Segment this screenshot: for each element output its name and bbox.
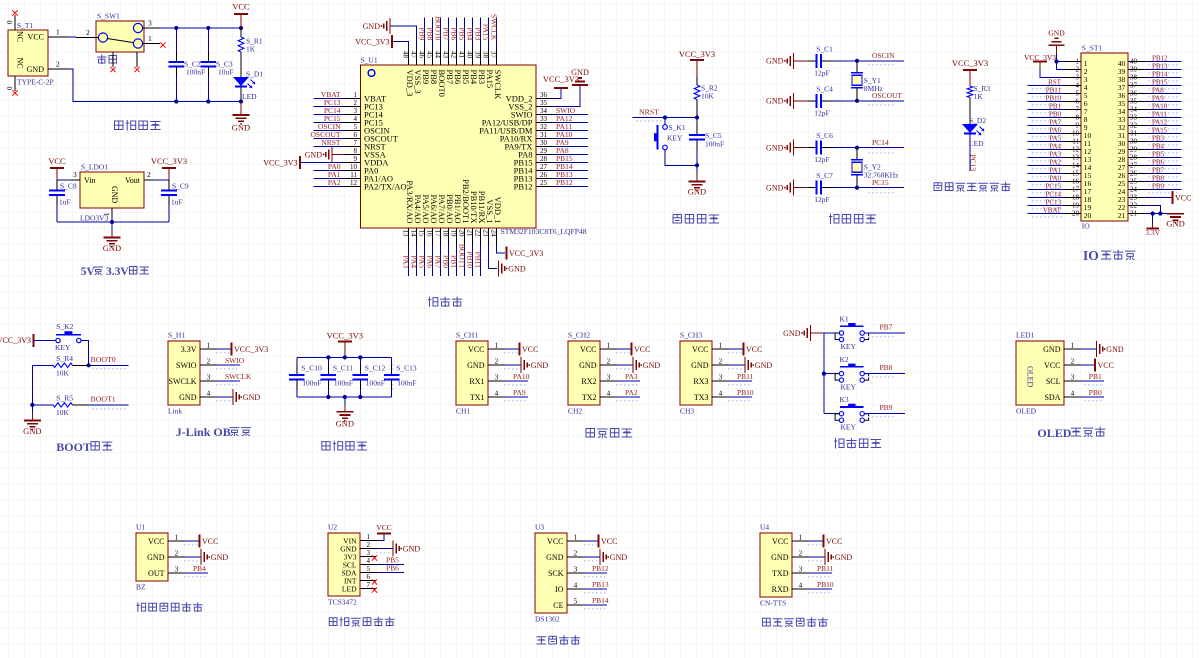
svg-text:VCC: VCC (202, 537, 218, 546)
svg-text:31: 31 (540, 131, 548, 139)
svg-text:17: 17 (433, 230, 441, 238)
svg-text:GND: GND (771, 553, 789, 562)
ground VSS_3 pin47 (390, 26, 416, 49)
svg-text:38: 38 (481, 51, 489, 59)
svg-text:PB11: PB11 (737, 372, 754, 381)
pin ST1.16 (1065, 181, 1081, 183)
svg-text:GND: GND (766, 144, 784, 153)
wire/net PC15 (313, 122, 344, 124)
pin ST1.23 (1128, 197, 1144, 199)
svg-text:S_C1: S_C1 (816, 44, 833, 53)
svg-text:SDA: SDA (1044, 393, 1060, 402)
snap dots (1146, 175, 1179, 180)
snap dots (1030, 183, 1062, 188)
svg-text:2: 2 (56, 60, 60, 69)
snap dots (1146, 143, 1179, 148)
junction (30, 403, 34, 407)
svg-text:SCK: SCK (548, 569, 564, 578)
wire/net PB10 (471, 245, 473, 277)
svg-text:21: 21 (1130, 210, 1138, 218)
pin U1.34 SWIO (536, 114, 552, 116)
wire/net PB12 (1144, 61, 1181, 63)
svg-text:3.3V: 3.3V (106, 266, 129, 278)
svg-text:3: 3 (1076, 74, 1080, 82)
svg-text:VCC_3V3: VCC_3V3 (679, 49, 715, 59)
wire/net PB7 (868, 334, 894, 339)
wire/net BOOT1 (463, 245, 465, 277)
svg-text:6: 6 (1076, 98, 1080, 106)
svg-text:LED: LED (969, 139, 984, 148)
ground GND (216, 398, 231, 403)
ground VSS_1 pin23 (488, 245, 497, 269)
svg-text:35: 35 (540, 99, 548, 107)
module S_CH2 (568, 341, 600, 405)
wire/net PA3 (616, 382, 638, 387)
power VCC (184, 542, 198, 547)
pin ST1.9 (1065, 125, 1081, 127)
svg-text:15: 15 (417, 230, 425, 238)
svg-text:PB14: PB14 (592, 596, 609, 605)
svg-text:PB4: PB4 (465, 27, 474, 40)
svg-text:PA9: PA9 (513, 388, 526, 397)
svg-text:PA2: PA2 (625, 388, 638, 397)
resistor R1 (240, 28, 242, 37)
pin U1.45 PB8 (431, 49, 433, 65)
svg-text:21: 21 (1118, 211, 1126, 220)
svg-text:VCC: VCC (1098, 361, 1114, 370)
wire/net PA12 (1144, 125, 1181, 127)
svg-text:4: 4 (1076, 82, 1080, 90)
pin U1.1 VBAT (345, 98, 361, 100)
snap dots (1030, 119, 1062, 124)
svg-text:2: 2 (719, 357, 723, 366)
svg-text:10K: 10K (56, 408, 70, 417)
wire/net PB7 (1144, 173, 1181, 175)
svg-text:48: 48 (401, 51, 409, 59)
capacitor C7 (808, 187, 817, 189)
ground GND (808, 558, 823, 563)
svg-text:NC: NC (15, 58, 24, 69)
snap dots (1146, 79, 1179, 84)
snap dots (1030, 103, 1062, 108)
button K3 (824, 413, 839, 415)
wire/net PB12 (583, 574, 605, 579)
svg-text:PB0: PB0 (441, 255, 450, 268)
svg-text:7: 7 (1076, 106, 1080, 114)
svg-text:PB12: PB12 (514, 181, 533, 191)
svg-text:PB1: PB1 (449, 255, 458, 268)
pin LDO1.3 (70, 179, 80, 181)
svg-text:CH1: CH1 (456, 407, 470, 416)
svg-text:S_C6: S_C6 (816, 131, 833, 140)
svg-text:PA12: PA12 (1152, 118, 1168, 126)
svg-text:42: 42 (449, 51, 457, 59)
junction (206, 26, 210, 30)
svg-text:GND: GND (403, 544, 421, 553)
svg-text:PA11: PA11 (1152, 110, 1168, 118)
svg-text:1: 1 (719, 341, 723, 350)
pin U1.35 VSS_2 (536, 106, 552, 108)
svg-text:LED: LED (242, 92, 257, 101)
svg-text:PA5: PA5 (1049, 134, 1061, 142)
svg-text:SWCLK: SWCLK (225, 372, 252, 381)
svg-text:PB13: PB13 (592, 580, 609, 589)
svg-text:GND: GND (643, 361, 661, 370)
svg-text:RX1: RX1 (469, 377, 484, 386)
module S_H1 (168, 341, 200, 405)
power VCC (1080, 364, 1095, 366)
pin U1.25 PB12 (536, 186, 552, 188)
ground GND (31, 405, 33, 413)
pin ST1.3 (1065, 77, 1081, 79)
svg-text:VCC: VCC (376, 523, 391, 532)
power VCC_3V3 pin24 (496, 245, 505, 254)
svg-text:S_C9: S_C9 (172, 182, 189, 191)
svg-text:PB14: PB14 (1152, 70, 1168, 78)
pin U1.33 PA12/USB/DP (536, 122, 552, 124)
junction (855, 99, 859, 103)
pin U1.19 PB1/AO (455, 228, 457, 245)
wire PC13 (969, 134, 971, 171)
svg-text:1: 1 (495, 341, 499, 350)
svg-text:37: 37 (489, 51, 497, 59)
svg-text:20: 20 (1084, 211, 1092, 220)
module S_CH1 (456, 341, 488, 405)
pin U1.46 PB9 (423, 49, 425, 65)
wire bus vertical (31, 365, 33, 405)
pin ST1.25 (1128, 181, 1144, 183)
connector T1 TYPE-C-2P (8, 30, 48, 76)
svg-text:S_CH1: S_CH1 (456, 331, 478, 340)
svg-text:SWCLK: SWCLK (169, 377, 197, 386)
svg-text:PB0: PB0 (1049, 110, 1062, 118)
ground GND for C1 (792, 53, 794, 69)
svg-text:1: 1 (799, 533, 803, 542)
svg-text:41: 41 (457, 51, 465, 59)
svg-text:PB15: PB15 (1152, 78, 1168, 86)
svg-text:32: 32 (1130, 122, 1138, 130)
wire/net OSCIN (313, 130, 344, 132)
svg-text:IO: IO (555, 585, 564, 594)
svg-text:36: 36 (540, 91, 548, 99)
power VCC (728, 350, 742, 355)
pin U1.10 PA0 (345, 170, 361, 172)
svg-text:2: 2 (574, 549, 578, 558)
wire/net SWIO (552, 114, 588, 116)
svg-text:19: 19 (449, 230, 457, 238)
svg-text:VCC_3V3: VCC_3V3 (151, 156, 187, 166)
title hongwai bizhang mokuai (136, 602, 145, 612)
power VCC_3V3 VDDA pin9 (300, 162, 345, 164)
svg-text:3: 3 (1071, 373, 1075, 382)
wire/net PB8 (431, 18, 433, 50)
wire PC15 (868, 189, 896, 194)
pin ST1.2 (1065, 69, 1081, 71)
svg-text:GND: GND (546, 553, 564, 562)
svg-text:4: 4 (495, 389, 499, 398)
svg-text:PB4: PB4 (193, 564, 206, 573)
power VCC (504, 350, 518, 355)
svg-text:SWIO: SWIO (225, 356, 245, 365)
svg-text:5V: 5V (81, 266, 96, 278)
pin SW1.2 (76, 37, 99, 39)
svg-text:OLED: OLED (1026, 366, 1035, 388)
button K2 (824, 373, 839, 375)
ground ST1.1-2 (1056, 54, 1058, 62)
svg-text:47: 47 (409, 51, 417, 59)
svg-text:GND: GND (766, 57, 784, 66)
power port VCC (240, 15, 242, 29)
svg-text:S_R4: S_R4 (56, 354, 73, 363)
capacitor C10 (294, 363, 300, 371)
pin U1.24 VDD_1 (495, 228, 497, 245)
pin U1.27 PB14 (536, 170, 552, 172)
svg-text:VCC: VCC (522, 345, 538, 354)
snap dots (1030, 191, 1062, 196)
svg-text:PB1: PB1 (1049, 102, 1062, 110)
wire/net BOOT1 (92, 406, 126, 411)
svg-text:VCC: VCC (692, 345, 708, 354)
power VCC (up) (376, 533, 384, 540)
svg-text:PB3: PB3 (473, 27, 482, 40)
power VCC_3V3 pin36 (552, 88, 561, 99)
capacitor C4 (808, 100, 817, 102)
wire/net PB15 (552, 162, 588, 164)
svg-text:16: 16 (425, 230, 433, 238)
svg-text:18: 18 (1072, 194, 1080, 202)
wire/net PB12 (552, 186, 588, 188)
svg-text:8: 8 (354, 147, 358, 155)
svg-text:2: 2 (607, 357, 611, 366)
svg-text:GND: GND (835, 553, 853, 562)
svg-text:CH3: CH3 (680, 407, 694, 416)
svg-text:PB5: PB5 (457, 27, 466, 40)
wire/net PA8 (552, 154, 588, 156)
wire/net PA0 (1028, 181, 1065, 183)
snap dots (1030, 111, 1062, 116)
svg-text:32: 32 (540, 123, 548, 131)
svg-text:3: 3 (73, 170, 77, 179)
svg-text:PB8: PB8 (425, 27, 434, 40)
svg-text:PB6: PB6 (449, 27, 458, 40)
svg-text:BOOT: BOOT (56, 440, 91, 454)
svg-text:28: 28 (1130, 154, 1138, 162)
svg-text:10K: 10K (56, 369, 70, 378)
pin U1.14 PA4/AO (415, 228, 417, 245)
title shizhong mokuai (537, 637, 547, 644)
wire/net PB6 (455, 18, 457, 50)
svg-text:2: 2 (86, 28, 90, 37)
svg-text:NC: NC (15, 31, 24, 42)
pin SW1 bottom no-connects (112, 52, 114, 67)
pin U1.28 PB15 (536, 162, 552, 164)
svg-text:GND: GND (27, 65, 45, 74)
svg-text:13: 13 (1072, 154, 1080, 162)
svg-text:12pF: 12pF (814, 195, 829, 204)
wire/net PB6 (376, 572, 404, 574)
svg-text:Vout: Vout (125, 176, 141, 185)
svg-text:VCC: VCC (28, 33, 44, 42)
wire/net BOOT0 (439, 18, 441, 50)
svg-text:DS1302: DS1302 (535, 615, 560, 624)
snap dots (1030, 207, 1062, 212)
svg-text:25: 25 (1130, 178, 1138, 186)
wire/net PB8 (868, 375, 894, 380)
svg-text:PB4: PB4 (1152, 142, 1165, 150)
svg-text:VCC: VCC (826, 537, 842, 546)
svg-text:PB1: PB1 (1089, 372, 1102, 381)
wire T1.1 to SW1.2 (68, 36, 76, 38)
no-connect (372, 587, 377, 592)
svg-text:GND: GND (336, 419, 354, 429)
wire/net PB1 (455, 245, 457, 277)
svg-text:29: 29 (540, 147, 548, 155)
junction (855, 186, 859, 190)
svg-text:PB3: PB3 (1152, 134, 1165, 142)
svg-text:23: 23 (481, 230, 489, 238)
svg-text:100nF: 100nF (186, 68, 205, 77)
wire bottom rail (297, 396, 392, 398)
svg-text:VCC_3V3: VCC_3V3 (327, 331, 363, 341)
junction (695, 115, 699, 119)
svg-text:VCC: VCC (746, 345, 762, 354)
svg-text:NRST: NRST (639, 108, 659, 117)
svg-text:1: 1 (103, 212, 111, 216)
svg-text:PB7: PB7 (880, 323, 893, 332)
junction (695, 163, 699, 167)
svg-text:PB12: PB12 (556, 178, 573, 187)
svg-text:LED: LED (342, 584, 357, 593)
pin ST1.19 (1065, 205, 1081, 207)
svg-text:3: 3 (148, 19, 152, 28)
svg-text:VCC_3V3: VCC_3V3 (234, 345, 268, 354)
svg-text:GND: GND (1166, 219, 1184, 229)
svg-text:7: 7 (354, 139, 358, 147)
svg-text:GND: GND (110, 186, 119, 204)
svg-text:VCC: VCC (148, 537, 164, 546)
svg-text:S_CH2: S_CH2 (568, 331, 590, 340)
svg-text:VCC: VCC (232, 2, 250, 12)
snap dots (1146, 167, 1179, 172)
ground GND (696, 165, 698, 174)
wire VCC to K2 (34, 340, 56, 342)
wire/net PC14 (1028, 197, 1065, 199)
svg-text:VCC: VCC (601, 537, 617, 546)
svg-text:45: 45 (425, 51, 433, 59)
pin ST1.14 (1065, 165, 1081, 167)
header ST1 IO expansion (1081, 53, 1128, 221)
svg-text:33: 33 (540, 115, 548, 123)
snap dots (1030, 87, 1062, 92)
svg-text:30: 30 (540, 139, 548, 147)
pin ST1.18 (1065, 197, 1081, 199)
svg-text:RX2: RX2 (581, 377, 596, 386)
pin U1.17 PA7/AO (439, 228, 441, 245)
wire/net PB6 (1144, 165, 1181, 167)
pin U1.3 PC14 (345, 114, 361, 116)
wire/net PB0 (1028, 117, 1065, 119)
svg-text:1uF: 1uF (59, 198, 71, 207)
pin ST1.22 (1128, 205, 1144, 207)
svg-text:PB8: PB8 (1152, 174, 1165, 182)
svg-text:24: 24 (489, 230, 497, 238)
wire SW1.3 to VCC rail (160, 27, 241, 29)
wire/net PA11 (552, 130, 588, 132)
wire/net PB9 (1144, 189, 1181, 191)
svg-text:S_C13: S_C13 (396, 364, 417, 373)
ground GND (1175, 213, 1177, 215)
svg-text:1K: 1K (974, 92, 984, 101)
pin ST1.1 (1065, 61, 1081, 63)
svg-text:TX3: TX3 (694, 393, 709, 402)
wire OSCOUT (868, 102, 896, 107)
title fuweidianlu (673, 215, 681, 223)
svg-text:KEY: KEY (841, 383, 857, 392)
wire/net PB3 (1144, 141, 1181, 143)
snap dots (1030, 199, 1062, 204)
svg-text:GND: GND (305, 150, 323, 159)
svg-text:PB10: PB10 (737, 388, 754, 397)
svg-text:SWCLK: SWCLK (493, 70, 503, 101)
svg-text:PC14: PC14 (1045, 190, 1061, 198)
svg-text:10: 10 (1072, 130, 1080, 138)
svg-text:3: 3 (574, 565, 578, 574)
svg-text:VCC: VCC (547, 537, 563, 546)
svg-text:VDD_1: VDD_1 (493, 197, 503, 224)
svg-text:OLED: OLED (1037, 426, 1071, 440)
svg-text:24: 24 (1130, 186, 1138, 194)
svg-text:19: 19 (1072, 202, 1080, 210)
svg-text:13: 13 (401, 230, 409, 238)
title jingzhendianlu (829, 214, 839, 224)
svg-text:S_R5: S_R5 (56, 394, 73, 403)
title chuankoudianlu (586, 429, 594, 437)
wire/net PA6 (1028, 133, 1065, 135)
pin SW1.1 no-connect (142, 43, 160, 45)
svg-text:1: 1 (56, 28, 60, 37)
snap dots (1030, 175, 1062, 180)
wire/net PC13 (1028, 205, 1065, 207)
pin U1.20 PB2/BOOT1 (463, 228, 465, 245)
wire top rail (297, 356, 392, 358)
label SW1 kaiguan (97, 55, 106, 64)
svg-text:PB6: PB6 (386, 563, 399, 572)
wire/net PB8 (1144, 181, 1181, 183)
wire D1 to GND rail (240, 87, 242, 102)
svg-text:4: 4 (574, 581, 578, 590)
wire/net PA4 (1028, 149, 1065, 151)
capacitor C6 (808, 147, 817, 149)
svg-text:21: 21 (465, 230, 473, 238)
ground GND (111, 222, 113, 230)
svg-text:0: 0 (6, 20, 14, 24)
svg-text:39: 39 (1130, 66, 1138, 74)
junction (174, 26, 178, 30)
wire/net SWCLK (216, 382, 238, 387)
svg-text:Vin: Vin (84, 176, 96, 185)
snap dots (1030, 95, 1062, 100)
pin ST1.38 (1128, 77, 1144, 79)
capacitor C5 (696, 118, 698, 126)
svg-text:GND: GND (147, 553, 165, 562)
svg-text:K3: K3 (840, 395, 849, 404)
svg-text:11: 11 (1072, 138, 1079, 146)
snap dots (1146, 103, 1179, 108)
svg-text:9: 9 (354, 155, 358, 163)
pin U1.18 PB0/AO (447, 228, 449, 245)
svg-text:S_C4: S_C4 (816, 84, 833, 93)
pin U1.26 PB13 (536, 178, 552, 180)
